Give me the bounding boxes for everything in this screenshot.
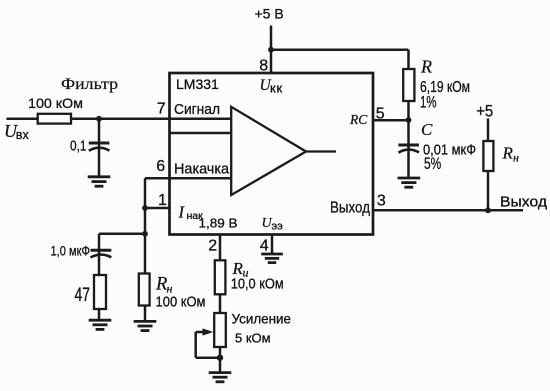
svg-text:кк: кк (270, 81, 283, 96)
resistor R 6.19 kOm (403, 69, 414, 101)
svg-text:5%: 5% (424, 154, 441, 173)
svg-text:вх: вх (16, 128, 30, 142)
svg-text:Фильтр: Фильтр (61, 76, 118, 93)
svg-text:4: 4 (260, 237, 269, 254)
ground under potentiometer (209, 373, 232, 382)
svg-text:1,0 мкФ: 1,0 мкФ (51, 243, 91, 259)
svg-text:0,1: 0,1 (70, 139, 87, 155)
ground under capacitor C (398, 178, 421, 187)
svg-text:3: 3 (377, 193, 386, 210)
label Ukk pin 8 (260, 77, 283, 96)
resistor Ri 10.0 kOm (215, 260, 226, 294)
wire R chain down through C to ground (407, 50, 410, 178)
wire pin 4 to ground (271, 235, 274, 255)
junction node filter (96, 116, 102, 122)
svg-text:R: R (155, 275, 167, 295)
wire +5V across to resistor R (271, 48, 409, 51)
svg-text:ээ: ээ (272, 221, 284, 233)
wire pin 1 stub (145, 207, 170, 210)
svg-text:10,0 кОм: 10,0 кОм (231, 277, 284, 293)
capacitor C 0.01 uF plates (398, 145, 419, 153)
resistor 47 (94, 275, 106, 309)
wire +5V supply down to pin 8 (270, 26, 273, 74)
svg-text:8: 8 (259, 58, 268, 75)
label Inak (178, 203, 204, 223)
svg-text:LM331: LM331 (176, 76, 219, 92)
svg-text:+5 В: +5 В (255, 6, 284, 22)
wire +5 down through RH to output node (487, 119, 490, 211)
svg-text:2: 2 (208, 237, 217, 254)
wire pin 5 RC stub (373, 119, 409, 122)
svg-text:Выход: Выход (330, 200, 371, 217)
capacitor 1.0 uF plates (91, 250, 112, 257)
junction node capacitor branch (142, 231, 148, 237)
IC U1 LM331 box (170, 73, 374, 235)
label RH load (502, 144, 520, 165)
wire input Uvx to pin 7 and into comparator (7, 118, 232, 121)
junction node pot bottom (217, 355, 223, 361)
ground under 0.1 capacitor (88, 177, 111, 186)
resistor RH load (right) (483, 141, 493, 171)
wire 0.1 capacitor branch to ground (98, 119, 101, 177)
junction node pin 1 (142, 205, 148, 211)
svg-text:1%: 1% (420, 93, 437, 112)
op-amp comparator triangle (231, 107, 336, 195)
resistor Rn 100 kOm (139, 274, 150, 306)
wire pin 3 output line (373, 209, 523, 212)
svg-text:6: 6 (156, 158, 165, 175)
ground under resistor 47 (89, 320, 112, 329)
svg-text:47: 47 (75, 285, 91, 306)
label Uee (262, 216, 284, 233)
wire pin6/pin1 vertical down to Rn 100k and ground (144, 178, 147, 321)
wire internal line above Nakachka (170, 132, 231, 135)
svg-text:н: н (513, 151, 519, 165)
svg-text:100 кОм: 100 кОм (156, 294, 206, 311)
wire pin 2 chain down through Ri and pot to ground (219, 235, 222, 373)
junction node +5V supply (268, 47, 274, 53)
junction node RC pin 5 (406, 117, 412, 123)
resistor 100 kOm filter (horizontal) (38, 114, 71, 124)
svg-text:100 кОм: 100 кОм (28, 95, 83, 111)
potentiometer wiper arrowhead (203, 328, 214, 335)
svg-text:R: R (420, 57, 432, 77)
label Rn 100k (155, 275, 173, 296)
svg-text:5 кОм: 5 кОм (235, 331, 271, 346)
ground under resistor Rn 100k (134, 321, 157, 330)
svg-text:I: I (178, 203, 186, 222)
label Uvx input (4, 121, 29, 142)
wire pin 6 line (145, 177, 231, 180)
svg-text:Накачка: Накачка (174, 161, 230, 178)
svg-text:5: 5 (376, 105, 385, 122)
capacitor 0.1 plates (89, 143, 110, 151)
wire capacitor 1.0uF branch (99, 234, 145, 320)
svg-text:RC: RC (349, 112, 368, 127)
label Ri (232, 259, 249, 280)
potentiometer 5 kOm body (214, 313, 226, 347)
svg-text:R: R (502, 144, 514, 163)
svg-text:1,89 В: 1,89 В (199, 217, 238, 231)
svg-text:Усиление: Усиление (232, 311, 292, 327)
svg-text:Сигнал: Сигнал (174, 101, 220, 118)
wire potentiometer wiper rheostat connection (196, 332, 220, 358)
junction node output (485, 207, 491, 213)
ground under pin 4 (261, 254, 283, 263)
svg-text:+5: +5 (476, 101, 493, 120)
svg-text:C: C (421, 120, 433, 139)
svg-text:Выход: Выход (500, 195, 548, 211)
svg-text:1: 1 (158, 192, 167, 209)
svg-text:7: 7 (157, 101, 166, 118)
